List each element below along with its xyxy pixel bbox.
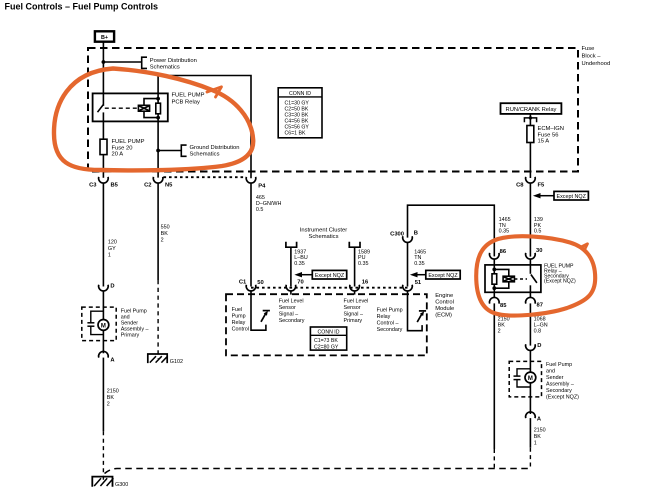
wire relay to fuse <box>529 114 531 178</box>
wire A down <box>529 418 531 448</box>
svg-text:BK: BK <box>534 434 542 440</box>
svg-text:Fuse: Fuse <box>582 46 595 52</box>
wire dashed to G300 <box>102 431 104 480</box>
svg-text:Control: Control <box>435 300 454 306</box>
switch secondary relay <box>531 275 537 283</box>
connector C8-F5 <box>516 177 545 188</box>
svg-text:Except NQZ: Except NQZ <box>428 273 458 279</box>
wire motor down primary <box>102 330 104 353</box>
wire A down primary <box>102 358 104 432</box>
text fuel pump relay control <box>232 307 249 333</box>
wire D to pump <box>529 350 531 372</box>
svg-text:G300: G300 <box>115 482 128 488</box>
svg-text:Sensor: Sensor <box>344 305 361 311</box>
wire dotted same-connector C1 row <box>251 287 408 289</box>
svg-text:Ground Distribution: Ground Distribution <box>190 145 240 151</box>
relay secondary box <box>485 265 541 292</box>
svg-text:Sensor: Sensor <box>279 305 296 311</box>
ground G102 <box>148 354 183 365</box>
text relay secondary <box>544 264 576 285</box>
svg-text:Assembly –: Assembly – <box>546 382 574 388</box>
svg-text:Pump: Pump <box>232 314 246 320</box>
svg-text:RUN/CRANK Relay: RUN/CRANK Relay <box>506 107 557 113</box>
switch PCB relay contacts <box>98 105 104 113</box>
fuse F1 FUEL PUMP Fuse 20 <box>100 139 107 154</box>
label wire 2150 BK 1 <box>534 427 546 446</box>
ECM dashed box <box>226 294 427 355</box>
svg-text:Underhood: Underhood <box>582 61 611 67</box>
off-page bracket IC right <box>349 242 360 248</box>
svg-text:PCB Relay: PCB Relay <box>172 99 200 105</box>
svg-text:C6=1 BK: C6=1 BK <box>285 130 306 136</box>
svg-text:C2: C2 <box>144 182 151 188</box>
wire dashed 85 to ground line <box>493 449 495 469</box>
svg-text:Except NQZ: Except NQZ <box>557 194 587 200</box>
capacitor suppressor secondary <box>514 369 531 387</box>
svg-text:Primary: Primary <box>121 332 140 338</box>
svg-text:Schematics: Schematics <box>150 65 180 71</box>
wire dashed ground bus horizontal <box>105 469 531 474</box>
svg-text:C3: C3 <box>89 182 97 188</box>
svg-text:D: D <box>537 343 541 349</box>
svg-text:FUEL PUMP: FUEL PUMP <box>112 139 145 145</box>
wire dashed A to ground line <box>529 448 531 469</box>
annotation orange tail right <box>580 244 588 251</box>
svg-text:M: M <box>101 323 106 329</box>
svg-text:0.8: 0.8 <box>534 328 542 334</box>
svg-text:0.35: 0.35 <box>414 261 425 267</box>
connector pin 51 <box>403 280 422 291</box>
svg-text:Fuel Level: Fuel Level <box>279 299 304 305</box>
svg-text:87: 87 <box>537 303 543 309</box>
svg-text:C1: C1 <box>239 279 247 285</box>
wire F5 down to relay pin 30 <box>529 183 531 257</box>
label wire 120 GY 1 <box>108 239 117 258</box>
svg-text:2: 2 <box>107 402 110 408</box>
capacitor suppressor primary <box>87 311 103 334</box>
label wire 139 PK 0.5 <box>534 217 543 235</box>
fuel pump secondary dashed box <box>509 361 541 397</box>
coil element PCB relay <box>156 103 161 114</box>
relay U2 FUEL PUMP Relay Secondary <box>485 248 576 309</box>
connector A primary pump <box>99 351 116 363</box>
text fuel pump relay control secondary <box>377 308 403 334</box>
svg-text:20 A: 20 A <box>112 152 124 158</box>
svg-text:Relay: Relay <box>232 320 246 326</box>
svg-text:85: 85 <box>500 303 507 309</box>
svg-text:Module: Module <box>435 306 454 312</box>
svg-text:CONN ID: CONN ID <box>289 91 311 97</box>
wire 1937 down <box>290 247 292 286</box>
svg-text:B+: B+ <box>101 35 108 41</box>
svg-text:1: 1 <box>534 440 537 446</box>
svg-text:Control: Control <box>232 327 249 333</box>
svg-text:Fuse 20: Fuse 20 <box>112 145 133 151</box>
Except NQZ box 3 <box>294 270 346 279</box>
svg-text:FUEL PUMP: FUEL PUMP <box>172 93 205 99</box>
Except NQZ box 1 <box>533 191 589 200</box>
svg-text:2150: 2150 <box>534 427 546 433</box>
wire bowtie parallel top secondary <box>494 269 509 276</box>
off-page bracket power distribution <box>142 57 147 68</box>
annotation orange loop left <box>54 69 253 171</box>
wire 1589 down <box>354 247 356 286</box>
node ground distribution tap <box>156 149 160 153</box>
wire pin 70 stub <box>290 291 292 295</box>
wire D to pump primary <box>102 291 104 320</box>
wire pin 87 down <box>529 303 531 345</box>
svg-text:Secondary: Secondary <box>279 318 305 324</box>
wire motor down <box>529 383 531 414</box>
svg-text:51: 51 <box>415 280 422 286</box>
label wire 1589 PU 0.35 <box>358 249 370 267</box>
svg-text:16: 16 <box>362 279 369 285</box>
svg-text:2: 2 <box>498 328 501 334</box>
wire pin 16 stub <box>354 291 356 295</box>
svg-text:P4: P4 <box>258 183 266 189</box>
wire C300 down to pin 51 <box>407 242 409 286</box>
label wire 1068 L-GN 0.8 <box>534 317 548 335</box>
svg-text:CONN ID: CONN ID <box>318 330 340 336</box>
svg-text:Fuel Level: Fuel Level <box>344 299 369 305</box>
label wire 1465 TN 0.35 mid <box>414 249 426 267</box>
wire switch lower <box>102 112 104 139</box>
svg-text:Relay: Relay <box>377 314 391 320</box>
svg-text:Fuel Controls – Fuel Pump Cont: Fuel Controls – Fuel Pump Controls <box>5 2 159 12</box>
text fuel level sensor secondary <box>279 299 305 325</box>
svg-text:(Except NQZ): (Except NQZ) <box>546 395 579 401</box>
svg-text:(ECM): (ECM) <box>435 313 452 319</box>
svg-text:Fuse 56: Fuse 56 <box>538 132 559 138</box>
svg-text:0.35: 0.35 <box>358 261 369 267</box>
fuse block underhood dashed box <box>88 48 578 172</box>
svg-text:Sender: Sender <box>546 375 564 381</box>
connector pin 87 <box>526 297 536 303</box>
relay U1 FUEL PUMP PCB Relay box <box>93 93 168 121</box>
coil driver bowtie secondary <box>503 276 514 282</box>
svg-text:B5: B5 <box>111 182 119 188</box>
svg-text:C8: C8 <box>516 182 524 188</box>
wire ECM pin51 to relay pin 86 <box>408 205 495 256</box>
svg-text:and: and <box>546 369 555 375</box>
svg-text:Schematics: Schematics <box>190 151 220 157</box>
label wire 550 BK 2 <box>161 225 170 244</box>
svg-text:Power Distribution: Power Distribution <box>150 58 197 64</box>
svg-text:M: M <box>528 376 533 382</box>
wire P4 down to pin 50 <box>250 183 252 287</box>
svg-text:C300: C300 <box>390 231 404 237</box>
connector P4 <box>246 177 266 189</box>
svg-text:50: 50 <box>257 280 263 286</box>
label wire 2150 BK 2 right <box>498 317 510 335</box>
wire to power distribution bracket <box>103 61 141 63</box>
svg-text:N5: N5 <box>165 182 173 188</box>
connector D primary pump <box>99 284 115 291</box>
wire dashed to G102 <box>157 280 159 359</box>
text fuel pump primary <box>121 308 149 338</box>
svg-text:Secondary: Secondary <box>377 327 403 333</box>
svg-text:G102: G102 <box>170 359 183 365</box>
svg-text:(Except NQZ): (Except NQZ) <box>544 279 576 285</box>
connector A secondary pump <box>526 412 542 422</box>
fuse block label <box>582 46 611 67</box>
node junction top <box>156 97 160 101</box>
fuel pump primary dashed box <box>82 307 116 341</box>
svg-text:2150: 2150 <box>107 389 119 395</box>
Except NQZ box 2 <box>410 270 460 279</box>
svg-text:0.35: 0.35 <box>499 229 510 235</box>
connector C1 pin 50 <box>239 279 264 291</box>
svg-text:0.5: 0.5 <box>256 207 264 213</box>
svg-text:2: 2 <box>161 238 164 244</box>
annotation orange loop right <box>476 236 595 315</box>
battery B+ terminal <box>95 31 114 41</box>
svg-text:D: D <box>110 284 114 290</box>
svg-text:1: 1 <box>108 252 111 258</box>
svg-text:BK: BK <box>161 231 169 237</box>
svg-text:550: 550 <box>161 225 170 231</box>
svg-text:ECM–IGN: ECM–IGN <box>538 126 564 132</box>
fuse F2 ECM-IGN Fuse 56 <box>527 126 534 143</box>
wire stub 30 to box <box>529 259 531 274</box>
svg-text:86: 86 <box>500 249 507 255</box>
connector D secondary pump <box>526 343 542 351</box>
wire relay coil vertical <box>158 76 251 179</box>
svg-text:120: 120 <box>108 239 117 245</box>
driver switch pin 51 <box>408 291 427 331</box>
svg-text:Control –: Control – <box>377 321 399 327</box>
node power distribution tap <box>102 60 106 64</box>
connector C2-N5 <box>144 177 173 188</box>
off-page bracket ground distribution <box>181 145 186 156</box>
svg-text:Schematics: Schematics <box>309 234 339 240</box>
svg-text:15 A: 15 A <box>538 139 550 145</box>
node junction bottom <box>156 116 160 120</box>
connector pin 85 <box>490 297 500 303</box>
wire fuse to connector <box>102 155 104 178</box>
svg-text:GY: GY <box>108 246 116 252</box>
driver switch pin 50 <box>251 291 270 330</box>
svg-text:Signal –: Signal – <box>344 312 363 318</box>
svg-text:Block –: Block – <box>582 54 602 60</box>
svg-text:Signal –: Signal – <box>279 312 298 318</box>
label wire 1465 TN 0.35 right <box>499 217 511 235</box>
wire dotted same-connector N5 to P4 <box>164 176 247 178</box>
svg-text:Primary: Primary <box>344 318 363 324</box>
svg-text:70: 70 <box>297 279 303 285</box>
svg-text:F5: F5 <box>538 182 546 188</box>
svg-text:0.35: 0.35 <box>294 261 305 267</box>
annotation orange tail left <box>207 87 222 97</box>
connector C300 B inline <box>390 230 418 242</box>
svg-text:C2=80 GY: C2=80 GY <box>314 345 339 351</box>
coil element secondary <box>492 274 497 284</box>
CONN ID table ECM <box>310 327 346 351</box>
wire N5 down to G102 <box>157 183 159 280</box>
wire B+ down to relay <box>102 42 104 106</box>
wire bowtie parallel bottom secondary <box>494 282 509 288</box>
wire B5 down to pump primary <box>102 183 104 287</box>
fuse clip bracket <box>524 118 536 122</box>
svg-text:Fuel Pump: Fuel Pump <box>546 362 572 368</box>
motor M primary <box>98 320 109 331</box>
off-page bracket IC left <box>286 242 297 248</box>
connector pin 70 <box>286 279 304 291</box>
svg-text:BK: BK <box>107 395 115 401</box>
connector pin 16 <box>350 279 369 291</box>
wire bowtie parallel top <box>144 99 158 106</box>
wire linkage dashed <box>105 107 139 109</box>
relay RUN/CRANK Relay box <box>501 103 562 114</box>
svg-text:Instrument Cluster: Instrument Cluster <box>300 227 347 233</box>
label wire 1937 L-BU 0.35 <box>294 249 308 267</box>
text fuel level sensor primary <box>344 299 369 325</box>
svg-text:Engine: Engine <box>435 293 453 299</box>
text fuel pump secondary <box>546 362 579 401</box>
svg-text:B: B <box>414 230 418 236</box>
svg-text:30: 30 <box>536 248 542 254</box>
svg-text:Fuel: Fuel <box>232 307 243 313</box>
motor M secondary <box>525 372 536 383</box>
wire bowtie parallel bottom <box>144 111 158 117</box>
coil driver bowtie PCB relay <box>138 105 149 111</box>
instrument cluster schematics label <box>300 227 347 240</box>
wire pin 85 down <box>493 303 495 449</box>
svg-text:Secondary: Secondary <box>546 388 572 394</box>
label wire 2150 BK 2 left <box>107 389 119 408</box>
wire stub 86 to box <box>493 259 495 298</box>
connector C3-B5 <box>89 177 119 188</box>
svg-text:C1=73 BK: C1=73 BK <box>314 338 338 344</box>
wire linkage dashed secondary <box>514 278 527 280</box>
connector pin 86 <box>490 253 500 259</box>
label wire 465 D-GN/WH 0.5 <box>256 195 282 213</box>
svg-text:0.5: 0.5 <box>534 229 542 235</box>
svg-text:Except NQZ: Except NQZ <box>315 273 345 279</box>
CONN ID table fuse block <box>278 88 322 138</box>
svg-text:Fuel Pump: Fuel Pump <box>377 308 403 314</box>
ground G300 <box>92 477 128 489</box>
wire to ground distribution bracket <box>158 150 181 152</box>
connector pin 30 <box>526 253 536 259</box>
